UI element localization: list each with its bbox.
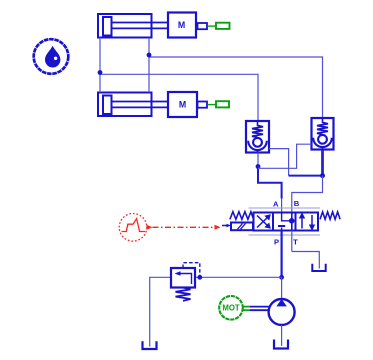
wire B line <box>292 176 323 213</box>
node CV2 outlet <box>320 173 325 178</box>
motor MOT <box>219 296 243 320</box>
wire tank branch <box>150 277 171 346</box>
sensor S1 <box>216 23 230 29</box>
svg-text:T: T <box>293 237 298 246</box>
cylinder C2 (bottom) <box>98 93 168 117</box>
svg-text:A: A <box>273 199 279 208</box>
node cap-side tee <box>98 70 103 75</box>
sensor link S1 <box>208 25 217 27</box>
relief valve pilot dashed <box>183 263 200 276</box>
svg-text:P: P <box>274 237 279 246</box>
valve V1 cell3 parallel arrows <box>300 214 314 229</box>
piston C2 <box>103 96 112 115</box>
shaft <box>243 307 269 311</box>
pump P1 <box>269 299 295 346</box>
wire CV1 outlet <box>257 153 259 167</box>
wire rod-side vertical <box>148 38 150 93</box>
valve V1 right spring <box>320 212 340 219</box>
sensor link S2 <box>208 104 217 106</box>
wire pilot bold horizontal <box>289 175 323 177</box>
tank T1 <box>312 264 325 271</box>
node P tee <box>279 275 284 280</box>
fluid properties icon <box>34 39 69 74</box>
node CV1 outlet tee <box>256 164 261 169</box>
svg-text:M: M <box>179 100 186 110</box>
rod stub M2 <box>198 102 208 108</box>
wire B/T through valve <box>291 213 293 231</box>
rod C1 <box>112 22 168 24</box>
sensor S2 <box>216 101 229 107</box>
check valve CV1 (left) <box>246 121 269 153</box>
wire P to pump <box>281 277 283 300</box>
wire P bold <box>281 231 283 278</box>
node rod-side tee <box>147 53 152 58</box>
node relief pilot tee <box>197 275 202 280</box>
wire cross pilot to CV2 <box>258 144 312 168</box>
piston C1 <box>103 17 112 36</box>
tank T2 (left) <box>143 341 157 349</box>
wire rod-side to right check valve <box>149 57 323 118</box>
valve V1 cell2 center <box>278 213 295 231</box>
wire CV1 pilot <box>269 149 289 176</box>
relief valve spring <box>176 288 191 301</box>
rod C2 <box>112 101 168 103</box>
svg-text:M: M <box>178 20 185 30</box>
valve V1 proportional solenoid <box>222 223 253 231</box>
mass M1 <box>168 13 196 38</box>
wire T to tank <box>292 252 320 269</box>
check valve CV2 (right) <box>312 118 334 150</box>
svg-text:MOT: MOT <box>222 304 240 313</box>
svg-text:B: B <box>294 199 300 208</box>
wire A port stub <box>281 199 283 213</box>
wire CV2 outlet (bold) <box>321 149 324 176</box>
valve rails <box>249 207 321 209</box>
tank T3 (pump) <box>274 340 288 349</box>
relief valve RV1 <box>171 268 195 288</box>
signal generator SG1 <box>119 214 152 242</box>
rod stub M1 <box>198 23 208 29</box>
wire cap-side vertical <box>99 38 101 93</box>
valve V1 body <box>254 213 319 231</box>
signal arrow <box>215 225 221 230</box>
wire A line (bold) <box>258 167 282 199</box>
signal wire dash-dot <box>153 226 215 228</box>
wire cap-side to left check valve <box>100 74 258 121</box>
valve V1 cell1 crossed arrows <box>257 215 270 228</box>
valve V1 left spring <box>230 212 254 220</box>
cylinder C1 (top) <box>98 14 168 38</box>
wire relief branch <box>195 276 282 278</box>
mass M2 <box>168 92 197 117</box>
